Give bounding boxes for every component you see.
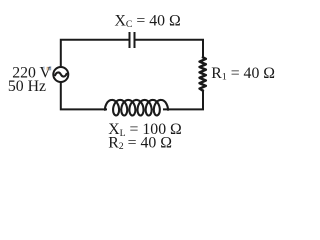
- stray colour artifact near source: [43, 66, 51, 70]
- resistor R1 zigzag: [200, 57, 206, 90]
- inductor L coil (six loops): [105, 100, 168, 116]
- wire: source up to top-left corner and across to capacitor: [61, 40, 129, 68]
- svg-text:R1 = 40 Ω: R1 = 40 Ω: [211, 65, 275, 83]
- wire: coil to bottom-left corner and up to source: [61, 82, 107, 109]
- wire: capacitor to top-right corner down to resistor R1: [135, 40, 203, 59]
- AC source V1 circle: [53, 67, 68, 82]
- capacitor C plates: [130, 32, 135, 48]
- svg-text:R2 = 40 Ω: R2 = 40 Ω: [108, 135, 172, 153]
- svg-text:XC = 40 Ω: XC = 40 Ω: [115, 13, 181, 31]
- AC source sine wave: [55, 72, 67, 76]
- wire: resistor R1 down to bottom-right corner and across to coil: [163, 90, 203, 110]
- svg-text:50 Hz: 50 Hz: [8, 78, 46, 95]
